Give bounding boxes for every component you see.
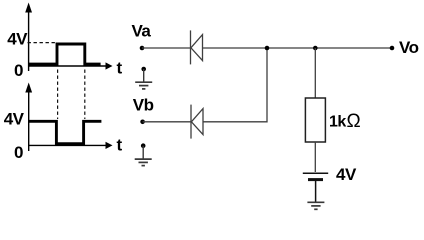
diode D2 (Vb branch): cathode bar: [190, 105, 192, 139]
ground below Vb: stem: [142, 146, 144, 159]
waveform plot Va: x-axis arrowhead: [106, 62, 113, 69]
battery 4V: positive long plate: [303, 172, 328, 174]
wire diode D1 to output node: [203, 47, 391, 49]
waveform plot Vb: inverted pulse trace: [29, 121, 102, 143]
waveform plot Va: x-axis: [29, 65, 106, 67]
waveform plot Vb: y-axis: [28, 91, 30, 151]
wire battery to ground: [315, 181, 317, 202]
ground below battery: bars: [307, 202, 324, 209]
node Vo: terminal dot: [390, 46, 395, 51]
wire Vb to diode D2: [143, 121, 191, 123]
node Vb: terminal dot: [140, 120, 145, 125]
wire resistor R1 to battery: [314, 142, 316, 172]
waveform plot Va: dashed 4V level line: [28, 42, 57, 44]
ground below Va: bars: [135, 82, 152, 89]
junction node at resistor branch: [313, 46, 318, 51]
waveform plot Vb: x-axis: [29, 144, 106, 146]
battery 4V: negative short plate: [308, 178, 323, 181]
dashed timing line left: [57, 70, 59, 120]
svg-text:Va: Va: [132, 22, 152, 41]
waveform plot Va: y-axis: [28, 11, 30, 71]
svg-text:Vb: Vb: [133, 96, 154, 115]
svg-text:0: 0: [14, 143, 23, 162]
ground below Va: terminal dot: [141, 67, 146, 72]
svg-text:4V: 4V: [7, 30, 28, 49]
diode D1 (Va branch): cathode bar: [190, 30, 192, 64]
svg-text:t: t: [117, 136, 123, 155]
ground below Vb: terminal dot: [141, 143, 146, 148]
wire output node to resistor R1: [314, 48, 316, 98]
ground below Va: stem: [143, 69, 145, 82]
diode D1 (Va branch): triangle: [191, 35, 203, 61]
svg-text:Ω: Ω: [347, 111, 361, 132]
resistor R1 1k ohm: body box: [305, 98, 325, 142]
svg-text:4V: 4V: [336, 165, 357, 184]
dashed timing line right: [84, 70, 86, 120]
node Va: terminal dot: [140, 46, 145, 51]
waveform plot Vb: y-axis arrowhead: [25, 83, 32, 93]
svg-text:1k: 1k: [329, 114, 346, 131]
svg-text:Vo: Vo: [399, 38, 419, 57]
ground below Vb: bars: [135, 159, 152, 166]
svg-text:t: t: [117, 59, 123, 78]
waveform plot Va: square pulse trace: [29, 44, 101, 64]
wire Va to diode D1: [142, 47, 190, 49]
waveform plot Va: y-axis arrowhead: [25, 3, 32, 13]
waveform plot Vb: x-axis arrowhead: [106, 142, 113, 149]
svg-text:4V: 4V: [4, 110, 25, 129]
svg-text:0: 0: [14, 61, 23, 80]
junction node at Vb branch: [265, 46, 270, 51]
wire diode D2 right then up to output node: [203, 48, 267, 122]
diode D2 (Vb branch): triangle: [191, 109, 203, 135]
